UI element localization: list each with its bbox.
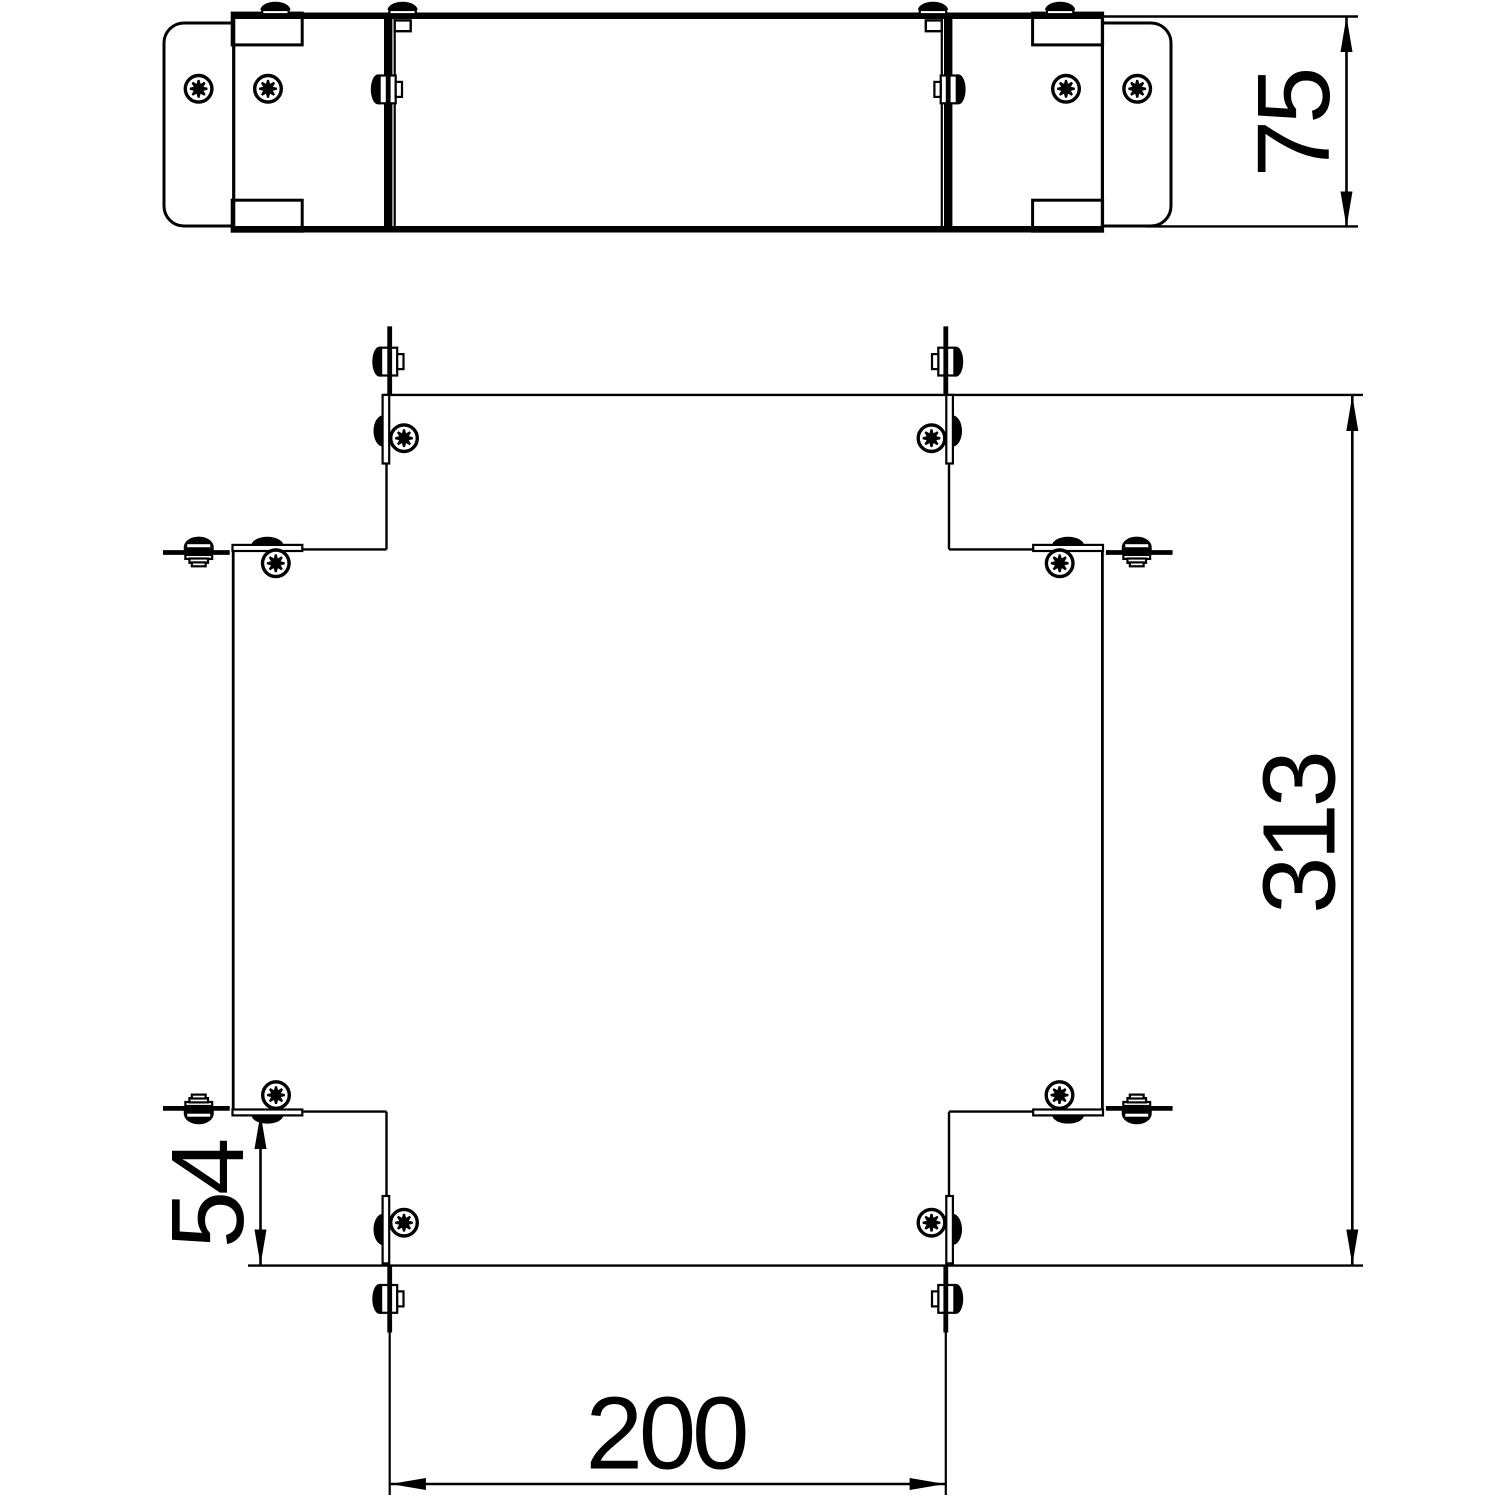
svg-text:200: 200 bbox=[586, 1376, 747, 1491]
svg-text:75: 75 bbox=[1236, 71, 1351, 178]
svg-text:313: 313 bbox=[1242, 754, 1357, 914]
svg-text:54: 54 bbox=[150, 1140, 265, 1248]
